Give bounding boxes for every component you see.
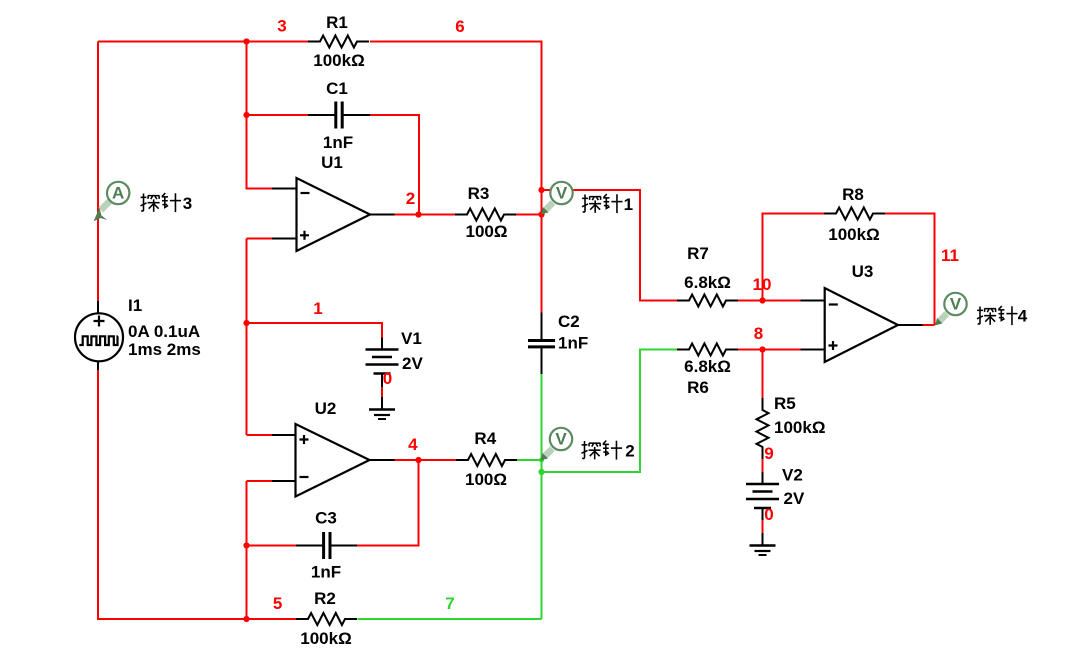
svg-text:U1: U1 — [321, 153, 343, 172]
junction R3 right dot — [538, 211, 544, 217]
svg-text:R4: R4 — [474, 429, 496, 448]
wire U1 plus stub red — [247, 238, 273, 240]
junction C1 branch dot — [243, 112, 249, 118]
svg-text:100Ω: 100Ω — [466, 222, 508, 241]
svg-text:100kΩ: 100kΩ — [300, 629, 351, 648]
wire node1 vertical — [246, 239, 248, 436]
svg-text:C1: C1 — [326, 79, 348, 98]
wire green R4 right — [517, 459, 542, 461]
svg-text:0A 0.1uA: 0A 0.1uA — [128, 322, 200, 341]
svg-text:1: 1 — [624, 195, 633, 214]
junction node 8 dot — [759, 346, 765, 352]
wire net3 top horizontal — [98, 41, 308, 43]
junction node 4 dot — [415, 457, 421, 463]
current source I1 — [75, 296, 201, 370]
junction node 2 dot — [415, 211, 421, 217]
junction probe2 branch green dot — [538, 469, 544, 475]
svg-text:R8: R8 — [842, 185, 864, 204]
svg-text:A: A — [112, 183, 124, 202]
svg-text:100kΩ: 100kΩ — [313, 51, 364, 70]
ground below V2 — [750, 546, 776, 556]
wire R7 right to node10 — [738, 300, 801, 302]
resistor R7 — [677, 244, 738, 307]
wire U2 out to R4 — [395, 459, 458, 461]
svg-text:9: 9 — [764, 444, 773, 463]
svg-text:2V: 2V — [402, 354, 423, 373]
svg-text:100kΩ: 100kΩ — [774, 418, 825, 437]
wire U1 out to R3 — [395, 214, 456, 216]
wire V2 bottom segment — [762, 520, 764, 533]
svg-text:8: 8 — [754, 324, 763, 343]
svg-text:2: 2 — [625, 442, 634, 461]
svg-text:3: 3 — [277, 17, 286, 36]
svg-text:R5: R5 — [774, 394, 796, 413]
svg-text:1nF: 1nF — [323, 133, 353, 152]
svg-text:U3: U3 — [852, 262, 874, 281]
svg-text:100Ω: 100Ω — [465, 470, 507, 489]
wire U2 minus stub red — [247, 480, 273, 482]
wire net6 R1 right to vertical — [370, 42, 542, 313]
svg-text:2V: 2V — [784, 489, 805, 508]
junction R4 right green dot — [539, 458, 544, 463]
capacitor C2 vertical — [528, 312, 588, 374]
capacitor C1 — [308, 79, 370, 152]
svg-text:6.8kΩ: 6.8kΩ — [684, 357, 731, 376]
resistor R5 vertical — [757, 394, 826, 459]
svg-text:R2: R2 — [314, 589, 336, 608]
junction node 5 dot — [243, 616, 249, 622]
wire R6 right to node8 — [738, 349, 801, 351]
svg-text:6: 6 — [455, 17, 464, 36]
svg-text:R6: R6 — [687, 378, 709, 397]
wire green bottom rail — [358, 618, 542, 620]
wire C1 right down to node2 — [370, 115, 419, 215]
svg-text:1nF: 1nF — [558, 334, 588, 353]
resistor R4 — [456, 429, 517, 489]
wire U2 minus vertical — [246, 481, 248, 619]
junction node 3 dot — [243, 38, 249, 44]
svg-text:I1: I1 — [128, 296, 142, 315]
wire node8 down to R5 — [762, 350, 764, 399]
probe 探针2 — [541, 428, 635, 461]
wire V1 bottom segment — [381, 387, 383, 397]
wire green vertical C2 bottom to bottom rail — [541, 374, 543, 619]
svg-text:1nF: 1nF — [311, 563, 341, 582]
wire U2 plus input — [247, 434, 273, 436]
svg-text:5: 5 — [273, 594, 282, 613]
wire probe1 branch to R7 — [542, 190, 678, 301]
resistor R8 — [824, 185, 885, 244]
probe 探针4 — [935, 293, 1028, 326]
op-amp U1 — [272, 153, 395, 251]
probe 探针3 (current) — [94, 182, 193, 221]
ground below V1 — [369, 410, 395, 420]
wire R8 right down to U3 out — [885, 214, 935, 326]
svg-text:C2: C2 — [558, 312, 580, 331]
wire left vertical upper — [97, 42, 99, 302]
junction probe1 dot — [538, 187, 544, 193]
wire R3 right — [516, 214, 542, 216]
svg-text:4: 4 — [408, 435, 418, 454]
svg-text:V1: V1 — [401, 329, 422, 348]
svg-text:0: 0 — [764, 505, 773, 524]
wire C3 right up to node4 — [357, 460, 419, 546]
svg-text:11: 11 — [941, 246, 959, 265]
svg-text:2: 2 — [406, 189, 415, 208]
svg-text:3: 3 — [183, 194, 192, 213]
svg-text:R1: R1 — [326, 13, 348, 32]
resistor R1 — [308, 13, 369, 70]
svg-text:4: 4 — [1018, 307, 1028, 326]
wire green probe2 branch to R6 — [542, 350, 678, 473]
svg-text:V2: V2 — [782, 466, 803, 485]
svg-text:6.8kΩ: 6.8kΩ — [684, 273, 731, 292]
capacitor C3 — [296, 509, 357, 582]
svg-text:1ms 2ms: 1ms 2ms — [128, 340, 201, 359]
battery V2 — [746, 466, 805, 546]
wire U3 out red — [923, 324, 935, 326]
probe 探针1 — [541, 182, 633, 215]
resistor R6 — [677, 344, 738, 398]
wire C1 left — [247, 114, 309, 116]
svg-text:U2: U2 — [315, 399, 337, 418]
op-amp U2 — [272, 399, 395, 497]
wire node1 to V1 — [247, 323, 383, 338]
wire node9 segment — [762, 457, 764, 472]
junction node 1 dot — [243, 320, 249, 326]
wire left vertical lower — [98, 370, 296, 619]
svg-text:1: 1 — [313, 299, 322, 318]
resistor R3 — [455, 184, 516, 241]
wire C3 left — [247, 545, 297, 547]
wire node10 up to R8 — [763, 214, 826, 301]
battery V1 — [366, 329, 424, 410]
op-amp U3 — [801, 262, 923, 362]
wire node3 vertical branch — [247, 42, 273, 189]
svg-text:C3: C3 — [315, 509, 337, 528]
junction C3 branch dot — [243, 542, 249, 548]
svg-text:7: 7 — [445, 594, 454, 613]
svg-text:0: 0 — [383, 369, 392, 388]
svg-text:10: 10 — [753, 275, 772, 294]
svg-text:R7: R7 — [687, 244, 709, 263]
junction node 10 dot — [759, 297, 765, 303]
svg-text:100kΩ: 100kΩ — [828, 225, 879, 244]
resistor R2 — [296, 589, 357, 648]
svg-text:R3: R3 — [468, 184, 490, 203]
